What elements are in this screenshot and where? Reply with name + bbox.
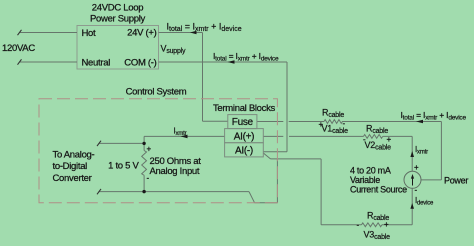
wire Ixmtr internal [144, 135, 225, 137]
wire V1cable left segment [289, 121, 324, 123]
svg-text:Vsupply: Vsupply [161, 44, 187, 56]
power supply U1 box [77, 26, 159, 70]
wire power vertical [440, 122, 442, 180]
svg-text:+: + [147, 145, 152, 154]
svg-text:Itotal = Ixmtr + Idevice: Itotal = Ixmtr + Idevice [213, 51, 279, 63]
svg-text:Itotal = Ixmtr + Idevice: Itotal = Ixmtr + Idevice [167, 22, 242, 34]
svg-text:24VDC Loop: 24VDC Loop [92, 3, 143, 14]
current source internal arrow [411, 174, 414, 179]
svg-text:Control System: Control System [126, 86, 187, 97]
terminal block AI+ box [225, 129, 264, 143]
arrow Itotal COM [228, 60, 235, 64]
control system dashed enclosure [39, 99, 277, 203]
current source U2 circle [404, 171, 421, 188]
arrow Itotal top left [190, 31, 197, 35]
tick ADC bottom stub [97, 189, 101, 194]
svg-text:120VAC: 120VAC [2, 43, 35, 54]
wire corner resistor top [143, 136, 145, 143]
svg-text:Idevice: Idevice [415, 196, 434, 207]
wire power to current source [421, 179, 442, 181]
svg-text:COM (-): COM (-) [124, 57, 156, 68]
wire AI(-) diagonal exit [263, 153, 270, 159]
wire Ixmtr vertical into current source [411, 136, 413, 171]
svg-text:Current Source: Current Source [350, 185, 407, 195]
svg-text:Analog Input: Analog Input [150, 166, 200, 177]
svg-text:Fuse: Fuse [232, 117, 254, 128]
svg-text:Rcable: Rcable [367, 211, 389, 223]
resistor Rcable V2 zigzag [364, 135, 383, 139]
wire V2cable right segment [383, 135, 413, 137]
junction dot resistor top [142, 142, 145, 145]
wire return vertical [276, 159, 278, 203]
junction dot resistor bottom [142, 190, 145, 193]
wire step vertical down [320, 159, 322, 225]
resistor Rcable V3 zigzag [362, 223, 382, 227]
svg-text:+: + [387, 135, 392, 144]
wire COM- horizontal [159, 61, 288, 63]
wire 24V+ vertical drop [202, 33, 204, 122]
wire V1cable right segment [342, 121, 441, 123]
wire Idevice vertical [411, 188, 413, 225]
tick ADC top stub [97, 141, 101, 146]
svg-text:Terminal Blocks: Terminal Blocks [213, 103, 276, 114]
wire AI(-) step horizontal [271, 158, 322, 160]
current source internal arrow shaft [412, 178, 414, 186]
svg-text:+: + [414, 163, 419, 172]
tick neutral wire end [18, 59, 22, 64]
resistor R250 top lead [143, 143, 145, 150]
svg-text:AI(+): AI(+) [234, 131, 254, 142]
svg-text:Rcable: Rcable [366, 124, 388, 136]
terminal block fuse box [228, 115, 257, 129]
arrow Itotal V1 [416, 120, 423, 124]
svg-text:-: - [343, 119, 346, 128]
svg-text:Itotal = Ixmtr + Idevice: Itotal = Ixmtr + Idevice [401, 110, 467, 122]
wire V3cable left segment [321, 224, 361, 226]
wire stub to ADC top [99, 142, 144, 144]
svg-text:Variable: Variable [350, 175, 380, 185]
wire V2cable left segment [289, 135, 364, 137]
svg-text:to-Digital: to-Digital [53, 161, 88, 172]
svg-text:To Analog-: To Analog- [53, 150, 95, 161]
wire 120VAC neutral [20, 61, 77, 63]
wire COM- vertical drop [286, 62, 288, 152]
wire return bottom [255, 202, 278, 204]
svg-text:AI(-): AI(-) [235, 146, 253, 157]
resistor R250 zigzag [142, 151, 147, 176]
wire 120VAC hot [20, 32, 77, 34]
resistor R250 bottom lead [143, 175, 145, 191]
terminal block AI- box [225, 143, 264, 157]
svg-text:Converter: Converter [53, 173, 92, 184]
arrow Ixmtr vertical [410, 151, 414, 157]
wire V3cable right segment [382, 224, 412, 226]
arrow Ixmtr internal [181, 135, 188, 139]
wire into fuse [203, 120, 228, 122]
svg-text:Power: Power [444, 176, 468, 186]
svg-text:1 to 5 V: 1 to 5 V [108, 161, 139, 172]
svg-text:Power Supply: Power Supply [90, 14, 146, 25]
svg-text:24V (+): 24V (+) [127, 28, 156, 39]
wire COM- to AI(-) right side [263, 151, 287, 153]
svg-text:Rcable: Rcable [322, 108, 344, 120]
wire AI(+) to V2 left segment [263, 135, 283, 137]
wire joggle [249, 192, 255, 203]
arrow Idevice vertical [410, 203, 414, 209]
tick hot wire end [18, 30, 22, 35]
svg-text:V3cable: V3cable [364, 230, 391, 242]
svg-text:Ixmtr: Ixmtr [174, 127, 187, 138]
wire fuse output [257, 121, 283, 123]
svg-text:Neutral: Neutral [82, 57, 111, 68]
svg-text:Ixmtr: Ixmtr [415, 145, 428, 156]
wire stub to ADC bottom and return [99, 191, 249, 193]
wire 24V+ to corner [159, 32, 203, 34]
svg-text:Hot: Hot [82, 28, 97, 39]
svg-text:4 to 20 mA: 4 to 20 mA [350, 166, 391, 176]
resistor Rcable V1 zigzag [324, 120, 342, 124]
